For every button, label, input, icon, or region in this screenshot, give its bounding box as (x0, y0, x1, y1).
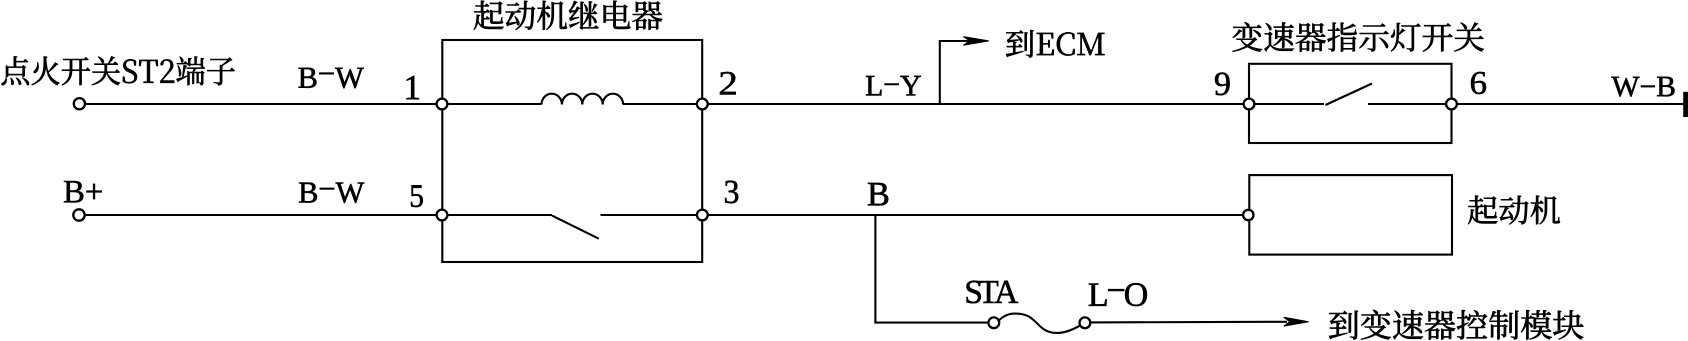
wire to fuse STA (874, 322, 988, 324)
terminal B+ (73, 209, 84, 220)
pin label 5 (411, 185, 423, 207)
switch S1 right contact (1368, 103, 1452, 105)
label B+ (64, 181, 102, 202)
wire branch down at B (874, 215, 876, 323)
wire pin1 to coil (447, 103, 542, 105)
node 3 (697, 210, 708, 221)
relay box outline (起动机继电器) (442, 40, 702, 262)
label 点火开关ST2端子 (2, 56, 235, 85)
pin label 9 (1215, 73, 1230, 96)
pin label 3 (725, 181, 738, 204)
wire coil to pin2 (623, 103, 697, 105)
relay contact blade (open) (552, 216, 599, 239)
label B-W (top) (299, 68, 364, 88)
switch S1 blade (open) (1326, 84, 1373, 106)
wire branch to ECM (940, 41, 976, 104)
wire B-W (B+ to relay pin 5) (85, 214, 442, 216)
label B-W (bottom) (299, 183, 364, 203)
arrowhead to TCM (1284, 317, 1309, 326)
arrowhead to ECM (963, 37, 988, 46)
label 变速器指示灯开关 (1233, 22, 1484, 52)
label 起动机 (1468, 196, 1560, 225)
node 1 (437, 99, 448, 110)
body ground strap (1683, 92, 1688, 117)
terminal ST2 (ignition switch) (74, 98, 85, 109)
starter box outline (起动机) (1249, 175, 1452, 255)
label L-O (1089, 283, 1147, 306)
node 6 (1446, 99, 1457, 110)
fuse STA left terminal (988, 317, 999, 328)
relay contact right wire (601, 214, 698, 216)
node 5 (437, 210, 448, 221)
label B (junction) (868, 183, 888, 206)
label W-B (1612, 77, 1675, 97)
switch box outline (变速器指示灯开关) (1249, 64, 1452, 143)
relay coil L (542, 94, 624, 105)
relay contact left wire (447, 214, 552, 216)
wire W-B (pin 6 to ground strap) (1457, 103, 1684, 105)
pin label 6 (1471, 72, 1486, 94)
starter input node (1243, 210, 1253, 220)
switch S1 left contact (1254, 103, 1324, 105)
label 到变速器控制模块 (1329, 310, 1584, 340)
label 到ECM (1006, 30, 1105, 58)
pin label 2 (720, 72, 736, 95)
wire L-Y (pin 2 to pin 9) (708, 103, 1249, 105)
fuse STA element (999, 314, 1080, 333)
pin label 1 (407, 76, 419, 99)
node 2 (697, 99, 708, 110)
wire B-W (ST2 to relay pin 1) (85, 103, 442, 105)
label L-Y (866, 76, 921, 96)
node 9 (1244, 99, 1255, 110)
wire B (pin 3 to starter) (708, 214, 1243, 216)
label 起动机继电器 (474, 1, 663, 30)
fuse STA right terminal (1080, 317, 1091, 328)
label STA (967, 281, 1019, 304)
wire L-O to TCM (1090, 321, 1287, 324)
